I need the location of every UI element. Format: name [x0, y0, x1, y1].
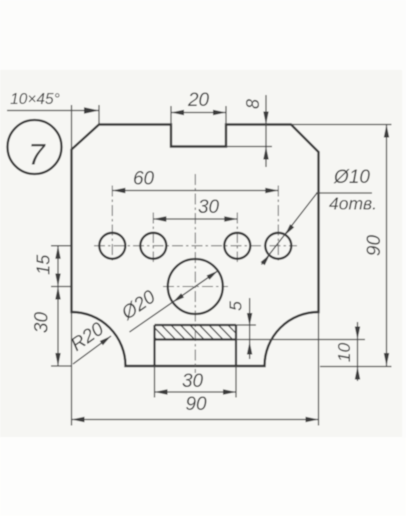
- svg-text:5: 5: [226, 301, 246, 311]
- chamfer dim extension lines: [71, 105, 73, 150]
- svg-text:10: 10: [334, 343, 354, 363]
- Ø20 diameter arrows: [207, 271, 218, 280]
- hole 3 Ø10: [224, 233, 250, 259]
- R20 leader line: [73, 336, 111, 364]
- svg-text:Ø10: Ø10: [333, 167, 370, 188]
- dim 20 arrows: [171, 110, 184, 115]
- hatching of groove strip: [141, 323, 254, 342]
- right dim 90 line: [386, 125, 388, 367]
- hole 2 Ø10: [140, 233, 166, 259]
- svg-text:8: 8: [243, 99, 263, 109]
- hole 4 Ø10: [265, 233, 291, 259]
- dim 10 extension line: [236, 339, 365, 341]
- svg-text:15: 15: [34, 254, 54, 275]
- dim 60 arrows: [112, 188, 125, 193]
- dim 5 line: [249, 298, 251, 359]
- Ø20 diameter line: [130, 271, 218, 332]
- big circle centerline extension left: [51, 286, 72, 288]
- svg-text:90: 90: [185, 394, 207, 415]
- svg-text:30: 30: [198, 197, 220, 218]
- svg-text:10×45°: 10×45°: [10, 91, 60, 108]
- dim 5 arrows: [247, 313, 252, 326]
- hole leader line: [262, 193, 318, 265]
- vertical axis centerline: [194, 174, 196, 373]
- dim 5 extension line: [236, 324, 256, 326]
- left dims line: [57, 246, 59, 366]
- big circle horizontal centerline: [163, 286, 228, 288]
- dim 8 extension line: [226, 146, 272, 148]
- groove right wall: [235, 325, 237, 366]
- dim 8 arrows: [263, 112, 268, 125]
- svg-text:90: 90: [364, 235, 385, 257]
- dim 30 arrows: [153, 216, 166, 221]
- hatch strip top line: [155, 324, 237, 326]
- dim 10 line: [357, 322, 359, 381]
- svg-text:20: 20: [187, 90, 210, 111]
- dim 8 line: [265, 95, 267, 167]
- hole 3 vertical centerline: [236, 213, 238, 263]
- central hole Ø20: [168, 259, 223, 314]
- hole 1 Ø10: [99, 233, 125, 259]
- groove left wall: [153, 325, 155, 366]
- bottom dim 30 line: [155, 391, 237, 393]
- bottom dim 90 line: [72, 419, 319, 421]
- hole 1 vertical centerline: [111, 186, 113, 263]
- left dims arrows: [55, 246, 60, 259]
- left dims extension line bottom: [51, 365, 72, 367]
- dim 30 line: [153, 218, 237, 220]
- hole row horizontal centerline: [94, 245, 297, 247]
- hole leader shelf: [316, 192, 372, 194]
- svg-text:4отв.: 4отв.: [329, 194, 377, 214]
- plate outline with chamfers, top notch and R20 corner scoops: [72, 125, 319, 367]
- R20 leader arrow: [100, 336, 111, 345]
- dim 20 extension lines: [170, 106, 172, 125]
- bottom dim 30 arrows: [155, 389, 168, 394]
- hole leader arrows: [285, 224, 294, 235]
- chamfer dim arrow: [84, 107, 99, 113]
- right dim 90 extension lines: [291, 124, 392, 126]
- bottom dim 30 extension lines: [154, 366, 156, 398]
- right dim 90 arrows: [384, 125, 389, 138]
- svg-text:60: 60: [133, 169, 155, 190]
- hole 4 vertical centerline: [277, 186, 279, 263]
- bottom dim 90 extension lines: [71, 312, 73, 426]
- position balloon circle: [8, 120, 62, 174]
- bottom dim 90 arrows: [72, 417, 85, 422]
- dim 60 line: [112, 190, 278, 192]
- svg-text:30: 30: [182, 371, 204, 392]
- hatch strip bottom line: [155, 338, 237, 340]
- svg-text:7: 7: [28, 139, 46, 172]
- dim 10 arrows: [355, 327, 360, 340]
- hole row centerline extension left: [51, 245, 72, 247]
- dim 20 line: [171, 112, 226, 114]
- svg-text:30: 30: [32, 312, 53, 334]
- chamfer dim line: [7, 110, 99, 112]
- hole 2 vertical centerline: [152, 213, 154, 263]
